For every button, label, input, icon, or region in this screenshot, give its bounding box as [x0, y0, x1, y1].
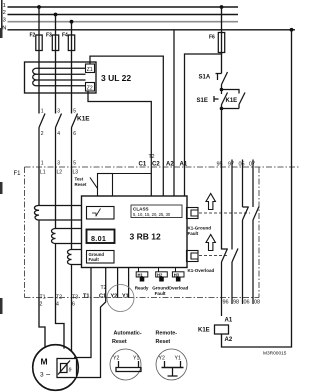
svg-text:N: N [2, 26, 6, 32]
overload relay 3UL22 box [25, 62, 97, 93]
svg-text:L2: L2 [57, 170, 63, 176]
wire N rail [8, 29, 296, 31]
svg-text:A1: A1 [180, 162, 188, 168]
pushbutton S1E start [214, 90, 228, 105]
motor M1 [33, 345, 79, 391]
figure edge line [1, 0, 3, 33]
CLASS rating box [131, 205, 182, 218]
svg-text:T1: T1 [40, 294, 46, 300]
svg-text:Y1: Y1 [175, 356, 181, 362]
fuse F4 [68, 35, 74, 51]
svg-text:1: 1 [41, 109, 44, 115]
device F1 boundary dash-dot box [25, 167, 300, 298]
contactor K1E main contact pole 3 [72, 114, 78, 168]
junction S1A branch [220, 88, 224, 92]
svg-text:H1: H1 [138, 272, 144, 277]
pushbutton S1A stop [216, 72, 228, 90]
coil K1E [215, 325, 229, 334]
svg-text:5, 10, 15, 20, 25, 30: 5, 10, 15, 20, 25, 30 [133, 212, 171, 217]
fuse F3 [52, 35, 58, 51]
wire L2 rail [8, 14, 239, 16]
junction L1-F6 [220, 5, 224, 9]
junction L3-F4 [70, 20, 74, 24]
wire phase 2 into CT [55, 167, 57, 229]
svg-text:1: 1 [41, 161, 44, 167]
svg-text:06: 06 [244, 300, 250, 306]
icon current detection box [87, 207, 115, 220]
svg-text:5: 5 [73, 161, 76, 167]
svg-text:K1E: K1E [77, 116, 90, 123]
svg-text:2: 2 [41, 131, 44, 137]
svg-text:M: M [41, 357, 48, 367]
wire Y2 terminal [117, 268, 119, 298]
svg-text:Ready: Ready [135, 286, 149, 291]
mech link ground fault [199, 212, 250, 214]
svg-text:Automatic-: Automatic- [114, 331, 142, 337]
svg-text:CLASS: CLASS [133, 206, 149, 211]
edge smudge middle [0, 182, 3, 194]
svg-text:3: 3 [57, 109, 60, 115]
svg-text:3 RB 12: 3 RB 12 [130, 232, 161, 242]
wire L3 rail [8, 21, 239, 23]
svg-text:S1A: S1A [199, 75, 211, 81]
svg-text:97: 97 [228, 162, 234, 168]
wire A1 from F6 [185, 53, 222, 197]
wire motor phase 1 [39, 298, 45, 348]
wire 97 upper [231, 160, 233, 250]
svg-text:ϑ: ϑ [69, 368, 72, 374]
svg-text:K1-Ground: K1-Ground [188, 226, 212, 231]
wire Z1 to C2 [90, 56, 163, 196]
svg-text:1: 1 [3, 3, 6, 9]
svg-text:K1E: K1E [226, 98, 238, 104]
wire Z2 to C1 [88, 91, 151, 196]
svg-text:6: 6 [73, 131, 76, 137]
svg-text:T2: T2 [56, 294, 62, 300]
contactor K1E main contact pole 1 [39, 114, 45, 168]
svg-text:T3: T3 [72, 294, 78, 300]
LED H2 ground fault [156, 268, 168, 282]
svg-text:05: 05 [239, 162, 245, 168]
thermistor sensor [57, 359, 77, 378]
wire L1 rail [8, 6, 239, 8]
svg-text:L1: L1 [40, 170, 46, 176]
svg-text:08: 08 [254, 300, 260, 306]
svg-text:A2: A2 [166, 162, 174, 168]
fuse F2 [36, 35, 42, 51]
test reset button [90, 174, 151, 197]
wire control to 95 [221, 105, 223, 250]
svg-text:Z2: Z2 [87, 85, 93, 91]
CT winding W3 [68, 250, 82, 298]
svg-text:S1E: S1E [197, 98, 208, 104]
svg-text:F4: F4 [62, 33, 68, 39]
svg-text:A2: A2 [225, 337, 233, 343]
wire K1E branch top [222, 90, 240, 94]
svg-text:Fault: Fault [155, 291, 166, 296]
svg-text:96: 96 [223, 300, 229, 306]
svg-text:F6: F6 [209, 35, 215, 41]
3UL22 heater winding [33, 68, 86, 86]
junction S1E rejoin [220, 107, 224, 111]
junction L1-F2 [37, 5, 41, 9]
svg-text:Z1: Z1 [87, 67, 93, 73]
output coupler overload [187, 251, 199, 262]
contact 07-08 [253, 207, 259, 305]
svg-text:Fault: Fault [89, 257, 100, 262]
svg-text:K1-Overload: K1-Overload [188, 268, 215, 273]
wire motor phase 2 [56, 298, 65, 349]
wire phase 3 vertical [71, 22, 73, 114]
svg-text:C1: C1 [139, 162, 147, 168]
svg-text:2: 2 [40, 302, 43, 308]
contactor K1E main contact pole 2 [56, 114, 62, 168]
svg-text:F1: F1 [14, 171, 22, 177]
annotation circle Y terminals [107, 285, 134, 312]
contact 97-98 [232, 249, 238, 305]
icon display box [87, 230, 115, 244]
svg-text:Fault: Fault [188, 231, 199, 236]
LED H3 overload [172, 268, 184, 282]
wire phase 2 vertical [55, 15, 57, 114]
svg-text:C1: C1 [99, 294, 106, 300]
svg-text:98: 98 [233, 300, 239, 306]
svg-text:T2: T2 [149, 154, 155, 160]
svg-text:F3: F3 [46, 33, 52, 39]
electronic overload 3RB12 box [82, 196, 188, 268]
wire motor phase 3 [71, 298, 73, 352]
contact 05-06 [243, 207, 249, 305]
svg-text:6: 6 [72, 302, 75, 308]
svg-text:2: 2 [3, 10, 6, 16]
svg-text:Remote-: Remote- [156, 331, 178, 337]
svg-text:T2: T2 [101, 285, 107, 291]
svg-text:3: 3 [57, 161, 60, 167]
wire control column [221, 7, 223, 74]
wire coil to N [222, 30, 292, 347]
CT winding W1 [34, 205, 81, 297]
auxiliary contact K1E hold [239, 93, 245, 109]
svg-text:Y2: Y2 [111, 294, 118, 300]
edge smudge top [0, 28, 3, 38]
arrow ground fault [206, 194, 215, 210]
svg-text:4: 4 [56, 302, 59, 308]
svg-text:F2: F2 [30, 33, 36, 39]
wire Y1 terminal [128, 268, 130, 298]
wire T1 thermistor [74, 268, 91, 358]
svg-text:Reset: Reset [75, 182, 87, 187]
svg-text:H2: H2 [157, 272, 163, 277]
wire phase 1 vertical [38, 7, 40, 114]
remote reset option circle [156, 349, 187, 380]
terminal Z2 [86, 83, 95, 92]
svg-text:K1E: K1E [198, 328, 210, 334]
junction N drop [290, 28, 294, 32]
wire K1E branch bottom [222, 108, 240, 110]
svg-text:Test: Test [75, 177, 84, 182]
contact 95-96 [222, 249, 228, 317]
svg-text:H3: H3 [174, 272, 180, 277]
svg-text:L3: L3 [73, 170, 79, 176]
wire 07 upper [252, 160, 254, 208]
automatic reset option circle [110, 349, 141, 380]
svg-text:3 ∼: 3 ∼ [40, 372, 51, 379]
svg-text:8.01: 8.01 [91, 234, 106, 243]
svg-text:5: 5 [73, 109, 76, 115]
terminal Z1 [86, 64, 95, 73]
output coupler ground fault [187, 208, 199, 219]
svg-text:3 UL 22: 3 UL 22 [101, 73, 131, 83]
arrow overload [206, 235, 215, 251]
edge smudge bottom [0, 298, 3, 314]
wire phase 1 into CT [38, 167, 40, 206]
svg-text:4: 4 [57, 131, 60, 137]
wire 05 upper [242, 160, 244, 208]
icon ground fault box [87, 251, 115, 264]
wire phase 3 into CT [71, 167, 73, 250]
svg-text:Y2: Y2 [113, 356, 119, 362]
svg-text:M3R00015: M3R00015 [263, 351, 287, 357]
svg-text:T1: T1 [83, 294, 89, 300]
svg-text:Ground: Ground [152, 286, 169, 291]
svg-text:07: 07 [249, 162, 255, 168]
svg-text:Y1: Y1 [122, 294, 129, 300]
LED H1 ready [136, 268, 148, 282]
svg-text:C2: C2 [152, 162, 160, 168]
fuse F6 [218, 33, 224, 53]
svg-text:Overload: Overload [168, 286, 188, 291]
svg-text:Y1: Y1 [133, 356, 139, 362]
svg-text:Reset: Reset [112, 339, 127, 345]
CT winding W2 [52, 229, 82, 298]
svg-text:3: 3 [3, 17, 6, 23]
svg-text:Reset: Reset [156, 339, 171, 345]
svg-text:A1: A1 [225, 318, 233, 324]
svg-text:Y2: Y2 [159, 356, 165, 362]
mech link overload [199, 255, 229, 257]
wire T2 thermistor [77, 268, 106, 378]
junction L2-F3 [54, 13, 58, 17]
svg-text:95: 95 [217, 162, 223, 168]
wire A2 from N [173, 30, 175, 196]
